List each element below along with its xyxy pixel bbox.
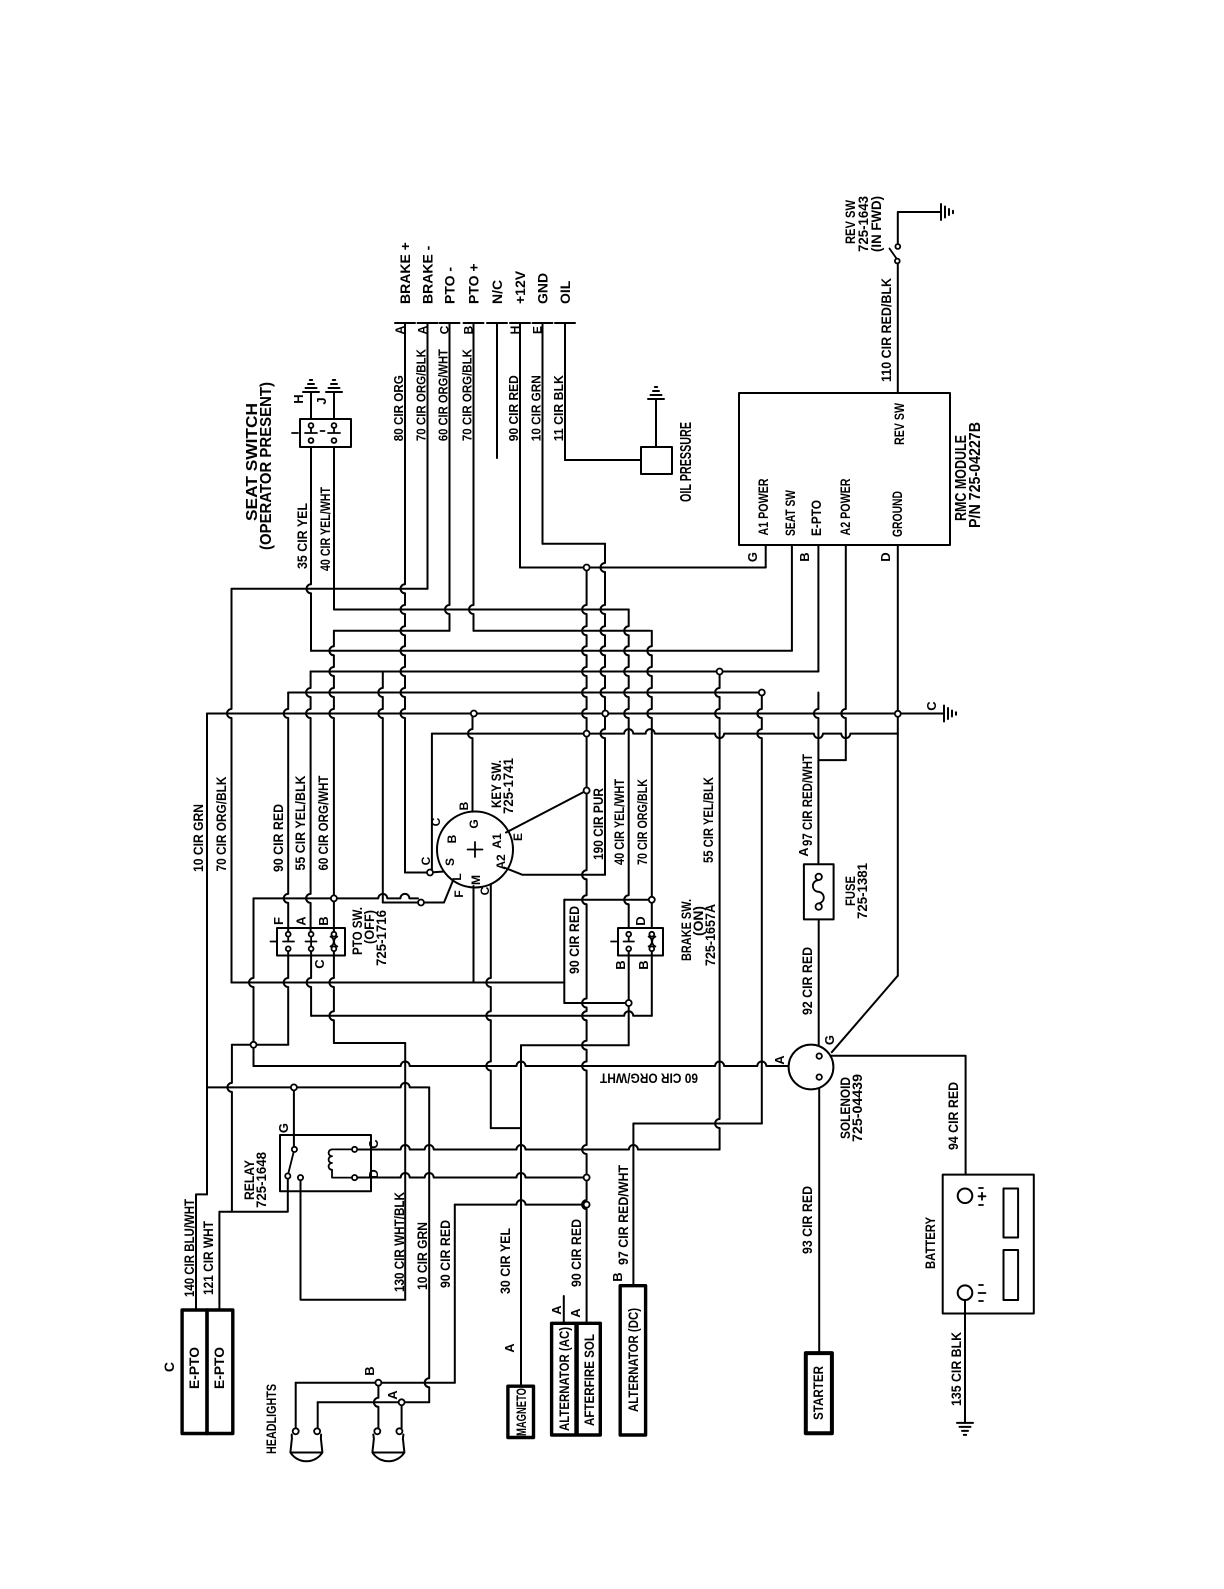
- wire x253 vert: [249, 898, 254, 1066]
- svg-text:A2 POWER: A2 POWER: [837, 479, 853, 536]
- wire 70 CIR ORG/BLK B: [469, 323, 474, 631]
- svg-text:90 CIR RED: 90 CIR RED: [566, 906, 582, 974]
- svg-text:(IN FWD): (IN FWD): [868, 196, 884, 252]
- svg-text:B: B: [457, 801, 471, 810]
- headlight 1 lamp: [290, 1435, 322, 1462]
- svg-text:A1: A1: [490, 833, 504, 849]
- seat switch pin: [309, 423, 314, 428]
- svg-text:BATTERY: BATTERY: [922, 1216, 938, 1269]
- wire 90RED mid vert: [563, 900, 565, 1003]
- line y1003: [564, 1002, 628, 1004]
- relay D line: [357, 1173, 586, 1178]
- REV SW ground: [941, 204, 953, 220]
- key M line: [232, 982, 565, 984]
- headlight1 A wire: [317, 1402, 319, 1428]
- svg-text:H: H: [291, 394, 306, 403]
- svg-text:L: L: [450, 873, 464, 880]
- svg-text:135 CIR BLK: 135 CIR BLK: [948, 1332, 964, 1406]
- junction L9 190PUR: [584, 731, 590, 737]
- svg-text:HEADLIGHTS: HEADLIGHTS: [263, 1384, 279, 1454]
- relay contact common: [292, 1147, 297, 1152]
- brake right bottom wire: [651, 949, 653, 1016]
- svg-text:S: S: [443, 858, 457, 866]
- solenoid body: [789, 1045, 834, 1090]
- svg-text:OIL: OIL: [557, 280, 573, 304]
- junction L7 x761.8: [759, 690, 765, 696]
- brake contact arcs: [649, 937, 656, 947]
- svg-text:D: D: [633, 916, 648, 925]
- headlight 2 terminal A: [396, 1428, 402, 1434]
- wire x382.8 up: [378, 672, 383, 903]
- relay G pin wire: [293, 1087, 295, 1146]
- PTO pin top: [332, 932, 337, 937]
- svg-text:GROUND: GROUND: [889, 491, 905, 537]
- PTO contact B arcs: [331, 937, 338, 947]
- E-PTO box 2: [207, 1310, 233, 1434]
- bus L5 seat 35YEL to RMC SEAT SW: [311, 650, 792, 652]
- key switch center cross: [468, 842, 483, 857]
- svg-text:30 CIR YEL: 30 CIR YEL: [497, 1228, 513, 1294]
- RMC module body: [739, 393, 950, 545]
- svg-text:ALTERNATOR (AC): ALTERNATOR (AC): [556, 1327, 572, 1431]
- svg-text:B: B: [362, 1366, 377, 1375]
- svg-text:A: A: [294, 916, 309, 926]
- fuse body: [804, 864, 834, 919]
- headlight2 A wire: [401, 1405, 403, 1428]
- key pin B wire: [468, 714, 473, 812]
- svg-text:10 CIR GRN: 10 CIR GRN: [529, 375, 544, 441]
- svg-text:+12V: +12V: [512, 270, 528, 304]
- wire 11 CIR BLK to box: [565, 459, 641, 461]
- wire 110 CIR RED/BLK: [897, 264, 899, 394]
- svg-text:B: B: [610, 1272, 625, 1281]
- svg-text:70 CIR ORG/BLK: 70 CIR ORG/BLK: [414, 349, 429, 442]
- key F line left: [383, 902, 418, 904]
- solenoid to battery: [822, 1056, 966, 1175]
- PTO B bottom wire: [329, 949, 334, 1043]
- svg-text:70 CIR ORG/BLK: 70 CIR ORG/BLK: [634, 779, 650, 865]
- svg-text:725-04439: 725-04439: [849, 1074, 865, 1142]
- E-PTO box 1: [182, 1310, 207, 1434]
- svg-text:A: A: [549, 1305, 564, 1315]
- line y898 pto feed: [254, 894, 419, 899]
- oil ground: [648, 387, 664, 399]
- svg-text:C: C: [429, 817, 443, 826]
- svg-text:C: C: [924, 701, 939, 711]
- relay NC wire to E-PTO2: [219, 1179, 287, 1212]
- wire L9 stub to key C: [431, 734, 433, 870]
- svg-text:F: F: [452, 890, 466, 897]
- wire 190 CIR PUR: [582, 568, 587, 734]
- svg-text:E: E: [531, 326, 545, 334]
- svg-text:B: B: [316, 916, 331, 925]
- fuse top contact: [816, 874, 822, 880]
- bus L9: [432, 729, 898, 738]
- line y1015.8: [311, 1011, 652, 1015]
- svg-text:B: B: [797, 552, 812, 561]
- wire 70 CIR ORG/BLK A: [427, 323, 429, 589]
- relay coil: [329, 1149, 332, 1169]
- junction L6 x719.6: [717, 669, 723, 675]
- alternator DC box: [620, 1286, 645, 1435]
- wire key C bottom: [486, 884, 491, 1128]
- wire 11 CIR BLK OIL: [564, 323, 566, 460]
- svg-text:E: E: [511, 833, 525, 841]
- wire 190 CIR PUR lower: [586, 734, 588, 791]
- relay NO wire: [301, 1180, 406, 1300]
- wire 35 CIR YEL: [307, 447, 312, 651]
- battery - marks: [979, 1285, 986, 1301]
- seat sw wire to ground H: [310, 392, 312, 419]
- starter body: [806, 1353, 832, 1433]
- svg-text:55 CIR YEL/BLK: 55 CIR YEL/BLK: [700, 777, 716, 863]
- junction key E 190PUR: [584, 788, 590, 794]
- svg-text:40 CIR YEL/WHT: 40 CIR YEL/WHT: [611, 779, 627, 865]
- brake pin TR: [649, 932, 654, 937]
- line y1087.4: [207, 1083, 429, 1088]
- junction 90RED branch: [584, 1202, 590, 1208]
- headlight B line: [296, 1382, 455, 1384]
- wire 60 CIR ORG/WHT C: [445, 323, 449, 631]
- headlight2 A connector: [399, 1399, 405, 1405]
- wire 80 CIR ORG tick: [395, 322, 415, 324]
- svg-text:35 CIR YEL: 35 CIR YEL: [294, 503, 310, 569]
- PTO pin top: [309, 932, 314, 937]
- key switch body: [437, 812, 513, 888]
- brake switch body: [618, 928, 663, 956]
- svg-text:A: A: [385, 1390, 400, 1400]
- svg-text:725-1716: 725-1716: [373, 910, 389, 966]
- solenoid pin bottom: [817, 1074, 822, 1079]
- relay C line: [357, 1145, 719, 1150]
- svg-text:B: B: [445, 834, 459, 843]
- wire 70 CIR ORG/BLK A tick: [418, 322, 438, 324]
- wire 90 CIR RED +12V tick: [510, 322, 530, 324]
- alternator AC box: [552, 1323, 576, 1435]
- solenoid G diagonal: [832, 976, 898, 1052]
- line y1204.6: [455, 1200, 587, 1205]
- svg-text:93 CIR RED: 93 CIR RED: [799, 1186, 815, 1254]
- corner 90RED: [563, 899, 566, 901]
- svg-text:10 CIR GRN: 10 CIR GRN: [414, 1222, 430, 1290]
- RMC pin GROUND wire: [897, 545, 899, 976]
- svg-text:D: D: [878, 552, 893, 561]
- wire 190PUR/90RED long: [582, 791, 587, 1178]
- wire 140 CIR BLU/WHT: [196, 1194, 207, 1310]
- svg-text:A: A: [796, 847, 811, 857]
- fuse element: [813, 880, 824, 903]
- headlight A line: [318, 1401, 430, 1403]
- svg-text:725-1648: 725-1648: [253, 1152, 269, 1208]
- junction L8 10GRN: [602, 711, 608, 717]
- svg-text:C: C: [161, 1362, 177, 1372]
- svg-text:725-1381: 725-1381: [854, 863, 870, 919]
- svg-text:110 CIR RED/BLK: 110 CIR RED/BLK: [878, 278, 894, 382]
- ground bus symbol C: [944, 706, 956, 722]
- relay coil links: [332, 1149, 352, 1177]
- svg-text:F: F: [271, 917, 286, 925]
- svg-text:90 CIR RED: 90 CIR RED: [437, 1220, 453, 1288]
- battery terminal -: [958, 1285, 973, 1300]
- key pin F slant: [425, 881, 453, 903]
- svg-text:97 CIR RED/WHT: 97 CIR RED/WHT: [799, 754, 815, 846]
- svg-text:60 CIR ORG/WHT: 60 CIR ORG/WHT: [315, 775, 331, 870]
- PTO A bottom wire: [307, 949, 311, 1016]
- junction key C: [427, 870, 433, 876]
- wire 97RED/WHT upper: [814, 693, 819, 865]
- svg-text:B: B: [636, 960, 651, 969]
- wire 55 CIR YEL/BLK pto: [306, 672, 311, 935]
- PTO F bottom wire: [284, 949, 289, 1045]
- oil ground wire: [655, 399, 657, 447]
- junction key F: [418, 900, 424, 906]
- key pin A2 slant: [504, 868, 605, 875]
- wire 11 CIR BLK OIL tick: [555, 322, 575, 324]
- bus L4a 60ORG/WHT to PTO: [334, 630, 450, 632]
- svg-text:C: C: [478, 886, 492, 895]
- wire 55 CIR YEL/BLK right: [715, 672, 720, 1150]
- svg-text:P/N 725-04227B: P/N 725-04227B: [967, 422, 984, 528]
- svg-text:E-PTO: E-PTO: [186, 1347, 202, 1389]
- wire 130 CIR WHT/BLK: [404, 1043, 406, 1300]
- svg-text:190 CIR PUR: 190 CIR PUR: [590, 788, 606, 860]
- svg-text:H: H: [508, 326, 522, 335]
- svg-text:725-1657A: 725-1657A: [702, 904, 718, 966]
- junction L1 190PUR: [584, 565, 590, 571]
- wire 60 CIR ORG/WHT pto: [329, 631, 334, 934]
- fuse bottom contact: [816, 903, 822, 909]
- RMC pin SEAT SW wire: [791, 545, 793, 651]
- RMC A2 link: [818, 759, 845, 761]
- ground H: [303, 380, 319, 392]
- headlight 1 terminal B: [293, 1428, 299, 1434]
- svg-text:A: A: [416, 325, 430, 334]
- junction L8 key B: [471, 711, 477, 717]
- svg-text:PTO +: PTO +: [466, 263, 482, 304]
- wire oil vert: [564, 458, 566, 460]
- line y1123.5: [633, 1123, 761, 1125]
- headlight2 B wire: [374, 1386, 379, 1429]
- svg-text:A2: A2: [494, 854, 508, 870]
- seat switch contacts: [292, 428, 340, 433]
- magneto box: [508, 1386, 534, 1437]
- wire 70 CIR ORG/BLK B tick: [464, 322, 484, 324]
- PTO switch body: [277, 928, 345, 956]
- REV SW contact upper: [895, 244, 900, 249]
- line y1045.2 to 30YEL: [521, 1044, 629, 1046]
- svg-text:ALTERNATOR (DC): ALTERNATOR (DC): [625, 1308, 641, 1412]
- relay contact NC: [285, 1173, 290, 1178]
- wire 10GRN headlights: [425, 1087, 429, 1402]
- wire 90RED to afterfire: [582, 1178, 587, 1324]
- wire 70ORG/BLK left: [227, 589, 231, 983]
- wire 60 CIR ORG/WHT C tick: [440, 322, 460, 324]
- svg-text:AFTERFIRE SOL: AFTERFIRE SOL: [581, 1334, 597, 1426]
- junction relay G: [291, 1084, 297, 1090]
- PTO pin bottom: [332, 946, 337, 951]
- svg-text:A: A: [772, 1055, 787, 1065]
- battery + marks: [979, 1188, 986, 1205]
- wire x761.8 L7 down: [757, 693, 761, 1124]
- svg-text:90 CIR RED: 90 CIR RED: [270, 804, 286, 872]
- brake left bottom wire: [628, 949, 630, 1045]
- wire N/C: [496, 323, 498, 458]
- wire 80 CIR ORG: [401, 323, 406, 873]
- svg-text:10 CIR GRN: 10 CIR GRN: [190, 804, 206, 872]
- svg-text:G: G: [467, 819, 481, 828]
- svg-text:C: C: [366, 1139, 381, 1149]
- svg-text:E-PTO: E-PTO: [808, 500, 824, 536]
- svg-text:A1 POWER: A1 POWER: [755, 479, 771, 536]
- svg-text:GND: GND: [535, 273, 551, 304]
- solenoid pin top: [817, 1053, 822, 1058]
- afterfire sol box: [577, 1323, 600, 1435]
- line y1128.1: [491, 1127, 521, 1129]
- seat sw wire to ground J: [333, 392, 335, 419]
- wire 40 CIR YEL/WHT: [333, 447, 335, 610]
- brake contacts: [611, 937, 634, 942]
- svg-text:60 CIR ORG/WHT: 60 CIR ORG/WHT: [436, 349, 451, 441]
- wire x231.9 down: [227, 1045, 232, 1212]
- svg-text:E-PTO: E-PTO: [211, 1347, 227, 1389]
- svg-text:G: G: [822, 1035, 837, 1045]
- battery terminal +: [958, 1189, 973, 1204]
- wire 10 CIR GRN GND: [542, 323, 544, 544]
- svg-text:G: G: [276, 1123, 291, 1133]
- svg-text:80 CIR ORG: 80 CIR ORG: [391, 375, 406, 441]
- brake pin BL: [626, 946, 631, 951]
- svg-text:SEAT SW: SEAT SW: [782, 489, 798, 536]
- wire 10 CIR GRN top link: [543, 543, 606, 545]
- wire 10GRN left vert: [206, 714, 208, 1195]
- junction brake D line: [649, 897, 655, 903]
- svg-text:C: C: [438, 325, 452, 334]
- svg-text:90 CIR RED: 90 CIR RED: [506, 375, 521, 441]
- svg-text:D: D: [366, 1169, 381, 1178]
- wire 121 CIR WHT: [218, 1212, 220, 1310]
- brake pin BR: [649, 946, 654, 951]
- bus L7 90RED line: [288, 692, 762, 694]
- relay contact NO: [298, 1175, 303, 1180]
- svg-text:140 CIR BLU/WHT: 140 CIR BLU/WHT: [181, 1199, 197, 1297]
- svg-text:C: C: [419, 856, 433, 865]
- PTO pin top: [286, 932, 291, 937]
- headlight 2 terminal B: [374, 1428, 380, 1434]
- bus L1 +12V to A1 POWER: [520, 567, 766, 569]
- wire alt DC: [632, 1124, 634, 1286]
- headlight1 B wire: [295, 1383, 297, 1429]
- svg-text:(OPERATOR PRESENT): (OPERATOR PRESENT): [258, 382, 275, 550]
- wire 90 CIR RED +12V: [519, 323, 521, 568]
- relay blade: [288, 1152, 293, 1174]
- junction relay D line end: [584, 1175, 590, 1181]
- svg-text:M: M: [469, 875, 483, 885]
- wire 90 CIR RED pto: [284, 693, 289, 935]
- RMC pin A2 wire: [841, 545, 846, 760]
- svg-text:121 CIR WHT: 121 CIR WHT: [200, 1221, 216, 1295]
- PTO pin bottom: [286, 946, 291, 951]
- svg-text:BRAKE +: BRAKE +: [397, 242, 413, 304]
- svg-text:MAGNETO: MAGNETO: [513, 1388, 529, 1436]
- svg-text:STARTER: STARTER: [810, 1366, 826, 1420]
- wire 10 CIR GRN GND tick: [533, 322, 553, 324]
- headlight2 B connector: [375, 1380, 381, 1386]
- line y899.8: [565, 899, 649, 901]
- junction brake left 90RED: [626, 1000, 632, 1006]
- svg-text:55 CIR YEL/BLK: 55 CIR YEL/BLK: [292, 776, 308, 871]
- wire 90RED headlights: [454, 1205, 456, 1383]
- battery ground wire: [964, 1300, 966, 1423]
- wire 10 CIR GRN mid: [601, 544, 606, 875]
- svg-text:40 CIR YEL/WHT: 40 CIR YEL/WHT: [317, 487, 333, 571]
- alternator AC stub: [563, 1296, 565, 1323]
- battery ground: [957, 1423, 973, 1435]
- headlight 1 terminal A: [314, 1428, 320, 1434]
- relay contact C: [352, 1147, 357, 1152]
- svg-text:70 CIR ORG/BLK: 70 CIR ORG/BLK: [460, 349, 475, 442]
- REV SW wire to ground: [898, 212, 941, 244]
- brake pin TL: [626, 932, 631, 937]
- svg-text:BRAKE -: BRAKE -: [420, 245, 436, 304]
- key pin M wire: [473, 886, 475, 983]
- seat switch pin: [309, 438, 314, 443]
- line y1043: [334, 1042, 405, 1044]
- svg-text:97 CIR RED/WHT: 97 CIR RED/WHT: [615, 1165, 631, 1265]
- svg-text:11 CIR BLK: 11 CIR BLK: [551, 375, 566, 442]
- svg-text:92 CIR RED: 92 CIR RED: [799, 947, 815, 1015]
- svg-text:J: J: [314, 397, 329, 404]
- junction PTO B feed: [331, 895, 337, 901]
- junction x253 y1044.8: [251, 1042, 257, 1048]
- svg-text:PTO -: PTO -: [442, 267, 458, 304]
- oil pressure switch: [641, 447, 672, 474]
- wire 93 CIR RED: [818, 1080, 820, 1353]
- seat switch body: [300, 419, 351, 447]
- svg-text:725-1741: 725-1741: [500, 758, 516, 814]
- seat switch pin: [332, 423, 337, 428]
- bus L3 from seat 40YEL/WHT: [334, 609, 629, 611]
- bus L4b 70ORG/BLK to brake: [474, 630, 651, 632]
- headlight 2 lamp: [372, 1435, 404, 1462]
- svg-text:90 CIR RED: 90 CIR RED: [568, 1219, 584, 1287]
- svg-text:OIL PRESSURE: OIL PRESSURE: [678, 422, 695, 502]
- wire N/C tick: [487, 322, 507, 324]
- ground J: [326, 380, 342, 392]
- relay body: [280, 1135, 371, 1191]
- svg-text:70 CIR ORG/BLK: 70 CIR ORG/BLK: [213, 777, 229, 872]
- svg-text:A: A: [568, 1308, 583, 1318]
- wire 30 CIR YEL: [520, 1045, 522, 1386]
- RMC pin E-PTO wire: [817, 545, 819, 672]
- line y1044.8: [232, 1044, 288, 1046]
- svg-text:60 CIR ORG/WHT: 60 CIR ORG/WHT: [600, 1071, 698, 1087]
- bus L2 BRAKE- line: [232, 588, 428, 590]
- bus L6 E-PTO line: [311, 671, 819, 673]
- battery bar 2: [1004, 1250, 1019, 1300]
- svg-text:B: B: [613, 960, 628, 969]
- svg-text:94 CIR RED: 94 CIR RED: [945, 1082, 961, 1150]
- RMC pin G wire A1: [765, 545, 767, 568]
- wire 92 CIR RED: [818, 919, 820, 1053]
- svg-text:B: B: [462, 325, 476, 334]
- key pin C stub: [430, 872, 444, 873]
- PTO pin bottom: [309, 946, 314, 951]
- svg-text:REV SW: REV SW: [891, 402, 907, 445]
- svg-text:G: G: [745, 552, 760, 562]
- junction GROUND pin on ground bus: [895, 711, 901, 717]
- svg-text:A: A: [393, 325, 407, 334]
- svg-text:A: A: [502, 1343, 517, 1353]
